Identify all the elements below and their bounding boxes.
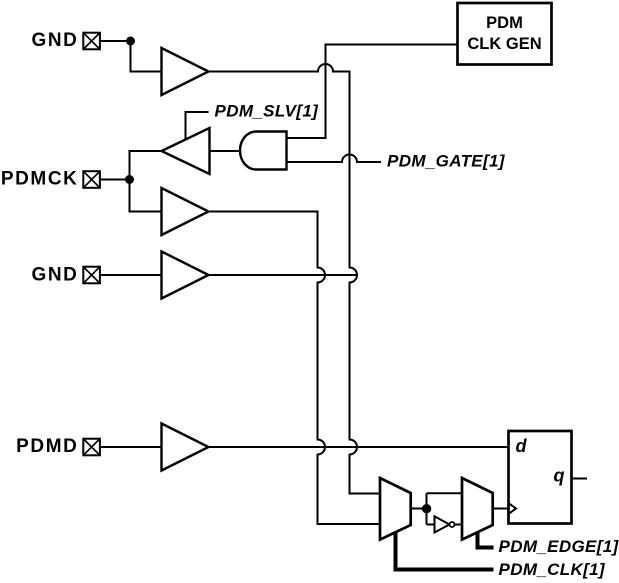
svg-text:PDM_EDGE[1]: PDM_EDGE[1] [499,537,619,556]
svg-text:PDMD: PDMD [16,436,78,457]
svg-text:GND: GND [31,264,78,285]
svg-text:GND: GND [31,30,78,51]
svg-text:PDMCK: PDMCK [1,168,79,189]
svg-text:d: d [516,436,528,456]
svg-text:PDM_SLV[1]: PDM_SLV[1] [215,101,320,120]
svg-text:PDM: PDM [486,14,523,32]
svg-text:PDM_CLK[1]: PDM_CLK[1] [499,560,606,579]
svg-text:CLK GEN: CLK GEN [467,35,541,53]
svg-text:PDM_GATE[1]: PDM_GATE[1] [387,152,506,171]
svg-text:q: q [554,466,565,486]
